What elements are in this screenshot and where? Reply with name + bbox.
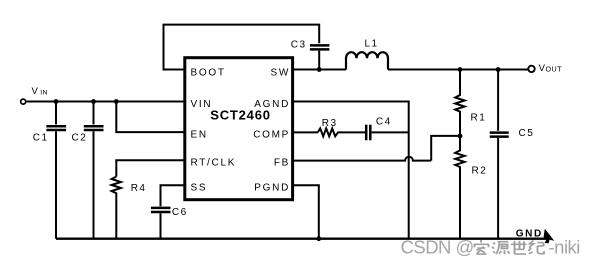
svg-text:EN: EN (191, 129, 208, 140)
node EN junction (114, 99, 119, 104)
svg-text:C5: C5 (519, 128, 535, 139)
svg-text:COMP: COMP (253, 129, 290, 140)
wire AGND down (293, 102, 409, 239)
wire SW to L1 (293, 69, 346, 71)
svg-text:OUT: OUT (546, 65, 563, 74)
terminal VIN (21, 99, 26, 104)
wire SS (161, 185, 185, 206)
svg-text:C6: C6 (172, 207, 188, 218)
resistor R4 (112, 177, 121, 239)
svg-text:GND: GND (516, 228, 543, 239)
wire FB tap (431, 136, 460, 161)
resistor R3 (318, 128, 365, 136)
capacitor C3 (310, 45, 330, 49)
svg-text:SS: SS (191, 182, 208, 193)
resistor R1 (455, 70, 464, 136)
wire RT/CLK (116, 160, 184, 176)
svg-text:VIN: VIN (191, 99, 213, 110)
wire VIN rail (27, 101, 184, 103)
svg-text:R4: R4 (131, 183, 147, 194)
svg-text:V: V (32, 86, 39, 97)
terminal VOUT (528, 66, 534, 72)
op-amp U1 SCT2460 box (185, 58, 293, 200)
watermark CSDN (401, 237, 580, 258)
svg-text:R2: R2 (472, 166, 488, 177)
capacitor C4 (366, 125, 409, 141)
wire EN to VIN rail (116, 102, 184, 133)
svg-text:L1: L1 (365, 39, 379, 50)
svg-text:FB: FB (274, 158, 290, 169)
svg-text:RT/CLK: RT/CLK (191, 158, 237, 169)
wire C3 to SW (318, 51, 320, 70)
node FB tap junction (458, 134, 463, 139)
svg-text:SCT2460: SCT2460 (210, 108, 271, 123)
svg-text:C4: C4 (376, 116, 392, 127)
resistor R2 (455, 136, 464, 239)
svg-text:C1: C1 (33, 132, 49, 143)
inductor L1 (346, 52, 388, 69)
svg-text:R3: R3 (322, 118, 338, 129)
node C5 top junction (496, 67, 501, 72)
wire ground rail (56, 238, 549, 240)
capacitor C2 (84, 102, 104, 239)
watermark hanzi 世 (511, 241, 527, 254)
watermark hanzi 纪 (529, 240, 545, 253)
node PGND rail junction (316, 236, 321, 241)
svg-text:PGND: PGND (254, 182, 290, 193)
svg-text:IN: IN (40, 90, 47, 97)
svg-text:C2: C2 (72, 132, 88, 143)
capacitor C6 (151, 208, 171, 239)
svg-text:C3: C3 (291, 40, 307, 51)
watermark hanzi 源 (492, 242, 510, 254)
svg-text:BOOT: BOOT (191, 67, 226, 78)
wire COMP (293, 131, 318, 133)
node C1 junction (54, 99, 59, 104)
svg-text:SW: SW (270, 67, 290, 78)
node SW/C3 junction (317, 67, 322, 72)
watermark hanzi 宏 (474, 240, 490, 254)
wire PGND down (293, 185, 319, 239)
node C2 junction (91, 99, 96, 104)
ground arrow symbol (544, 229, 555, 244)
wire FB with hop (293, 157, 432, 161)
capacitor C1 (46, 102, 66, 239)
node R1 top junction (458, 67, 463, 72)
wire BOOT loop to C3 (164, 25, 320, 70)
capacitor C5 (490, 70, 509, 239)
wire L1 to VOUT (388, 69, 528, 71)
svg-text:R1: R1 (471, 113, 487, 124)
